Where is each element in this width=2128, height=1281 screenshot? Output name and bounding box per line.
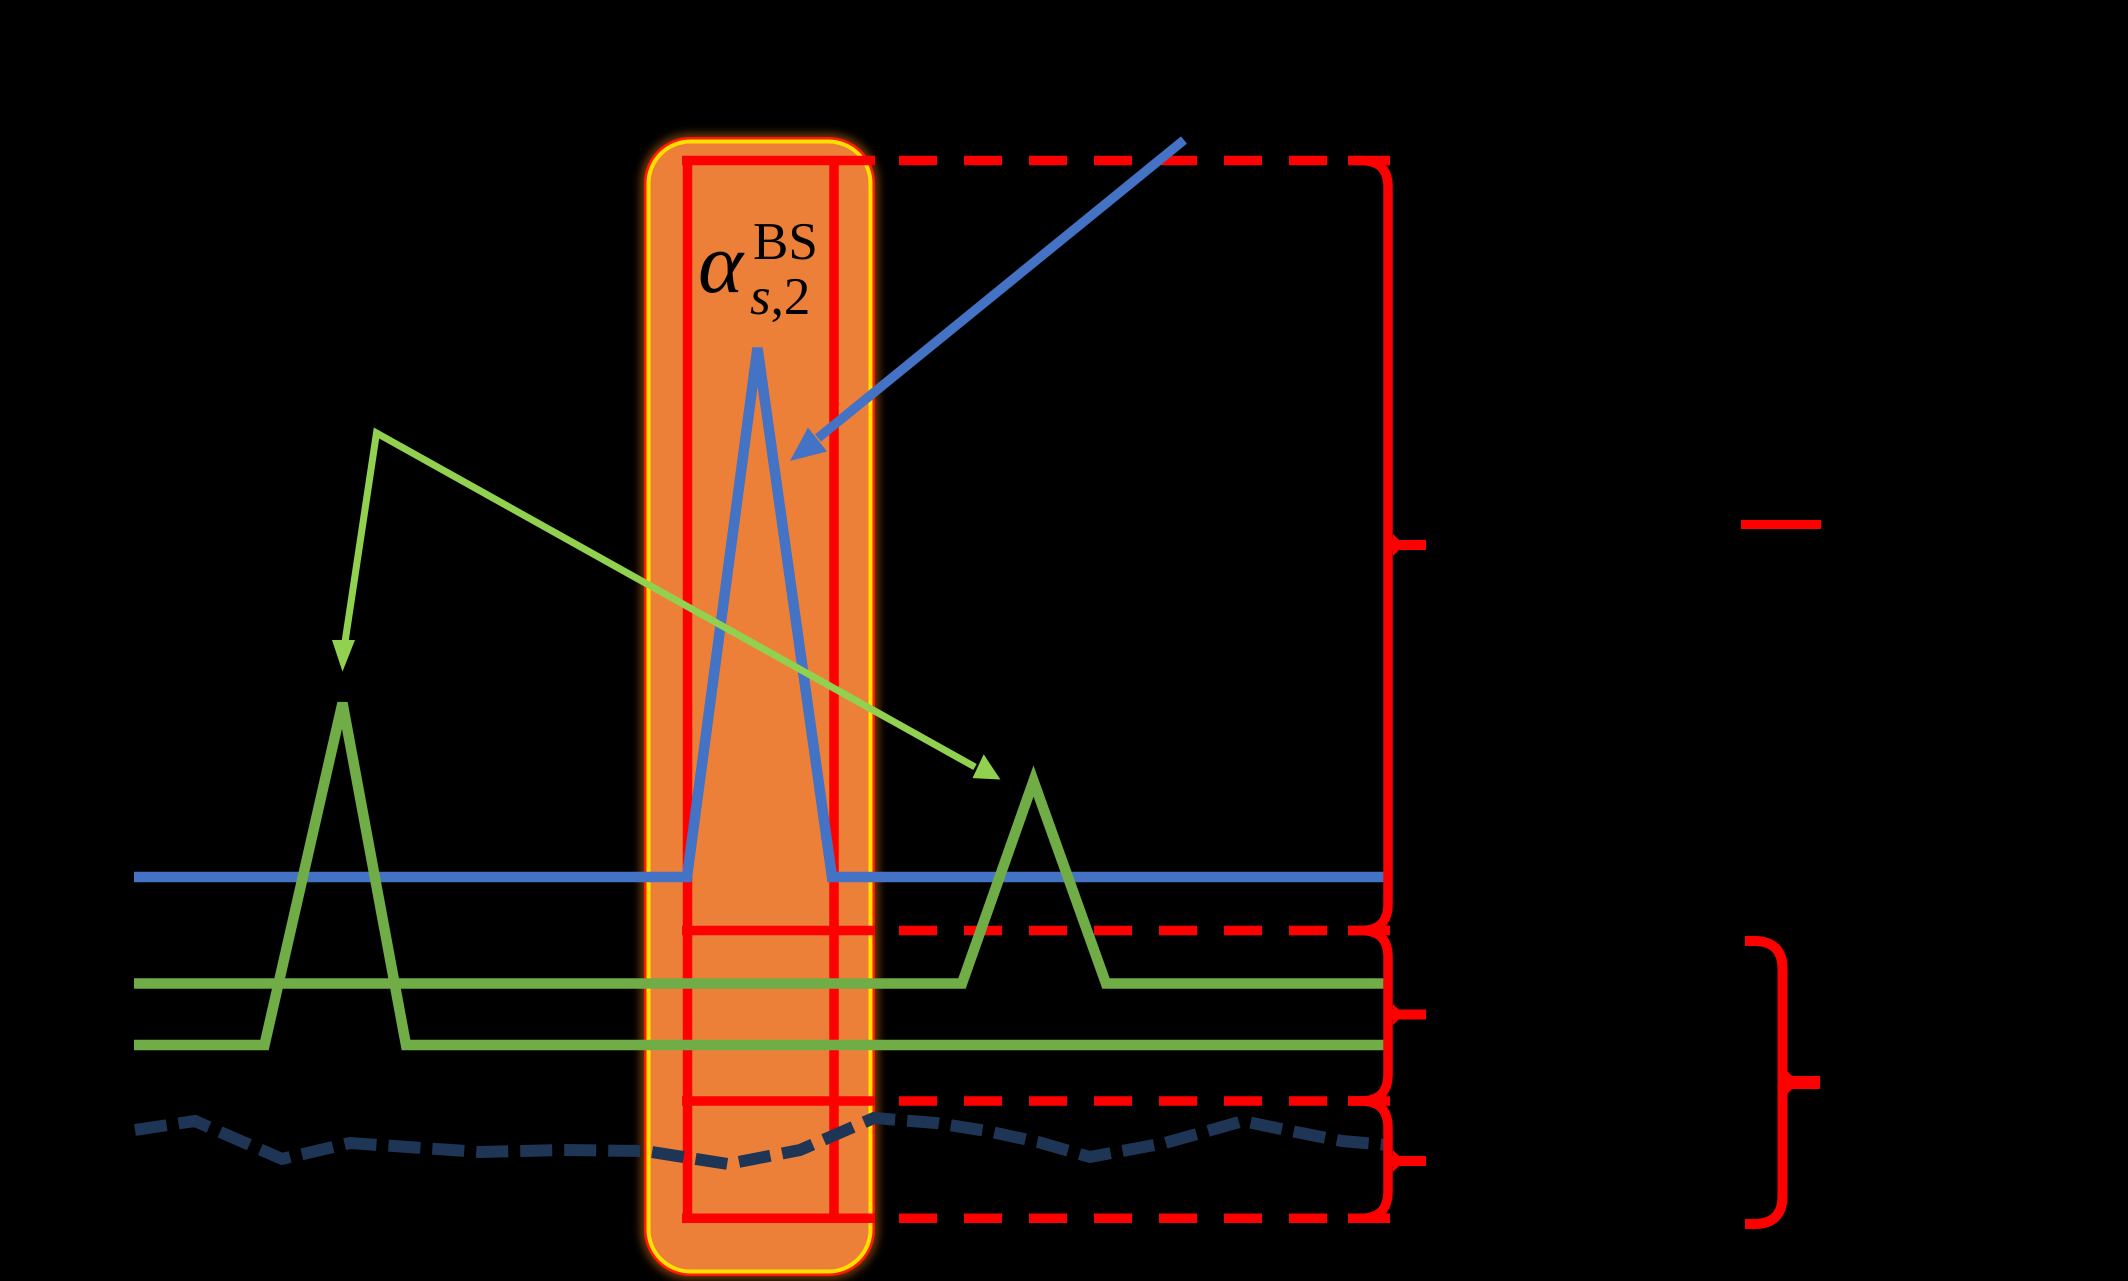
bottom horizontal: [682, 1214, 875, 1224]
red rectangle grid inside bar: [682, 156, 875, 1223]
green lower curve with left peak: [134, 703, 1384, 1045]
svg-text:BS: BS: [753, 213, 818, 271]
brace B cusp tick: [1384, 1010, 1426, 1020]
blue callout arrow to blue peak: [790, 140, 1184, 461]
divider 1: [682, 926, 875, 936]
divider 2: [682, 1096, 875, 1106]
red brace B (middle section): [1348, 931, 1388, 1102]
red brace D (far right): [1745, 941, 1783, 1224]
blue spectrum curve with peak: [134, 348, 1384, 877]
svg-text:α: α: [698, 215, 745, 311]
red brace C (bottom section): [1348, 1101, 1388, 1218]
label alpha_s,2^BS: [698, 213, 818, 326]
green upper curve with right peak: [134, 781, 1384, 984]
brace A cusp tick: [1384, 540, 1426, 550]
left vertical: [683, 156, 693, 1223]
right vertical: [829, 156, 839, 1223]
green callout arrows to both green peaks: [332, 433, 1000, 780]
svg-text:s,2: s,2: [750, 268, 810, 326]
red dashed level lines: [899, 161, 1390, 1219]
brace D cusp tick: [1785, 1076, 1820, 1089]
red brace A (top section): [1348, 161, 1388, 931]
navy dashed wavy noise-floor curve: [135, 1118, 1387, 1164]
brace C cusp tick: [1384, 1156, 1426, 1166]
legend dash (red): [1741, 520, 1821, 529]
top horizontal: [682, 156, 875, 166]
